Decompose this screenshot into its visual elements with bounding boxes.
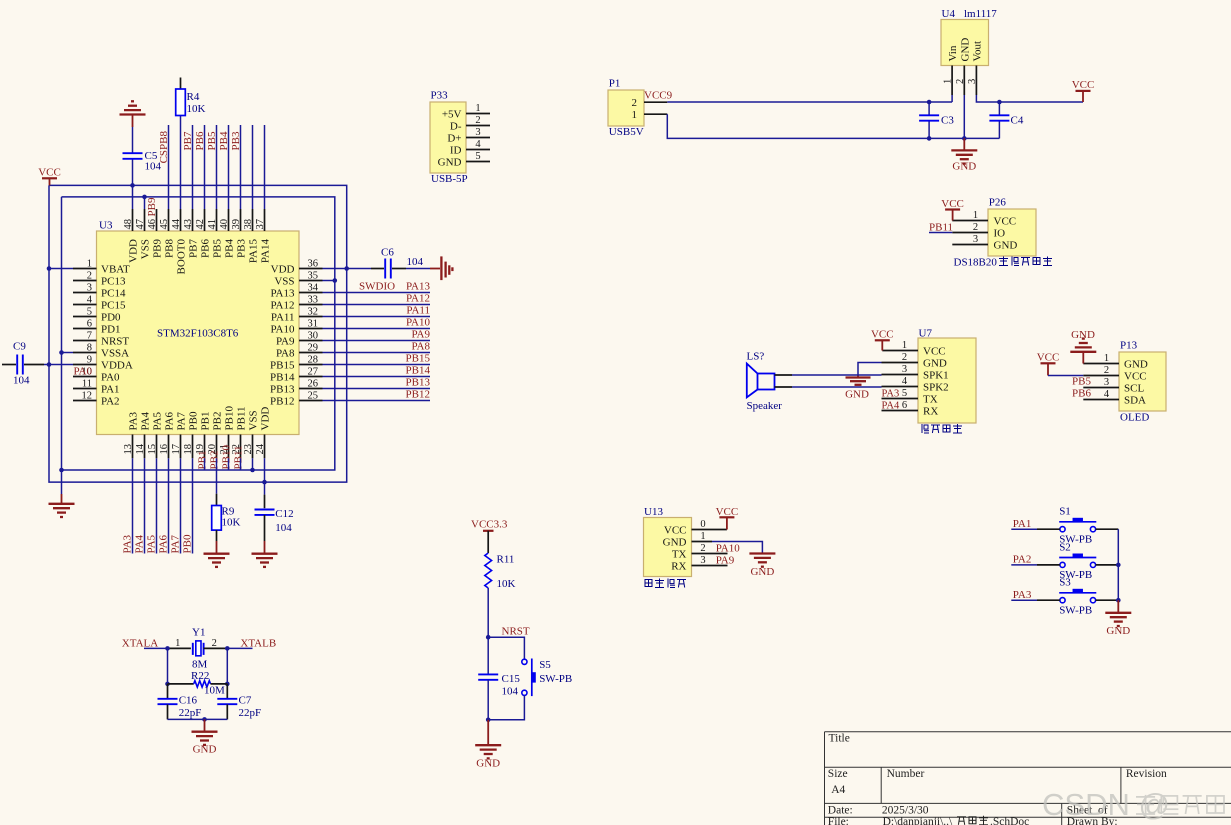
svg-text:GND: GND bbox=[438, 156, 462, 168]
svg-text:GND: GND bbox=[923, 357, 947, 369]
wire NRST to S5 bbox=[488, 637, 524, 659]
wire S1 to gnd bus bbox=[1096, 528, 1119, 530]
svg-text:VDD: VDD bbox=[271, 263, 295, 275]
svg-text:S1: S1 bbox=[1059, 506, 1071, 518]
svg-text:GND: GND bbox=[750, 566, 774, 578]
svg-text:CSPB8: CSPB8 bbox=[158, 131, 170, 164]
voice module U7 bbox=[902, 328, 976, 424]
svg-text:GND: GND bbox=[959, 38, 971, 62]
wire S3 to gnd bus bbox=[1096, 599, 1119, 601]
svg-text:TX: TX bbox=[672, 548, 687, 560]
svg-text:GND: GND bbox=[845, 388, 869, 400]
svg-text:1: 1 bbox=[700, 531, 705, 542]
svg-text:25: 25 bbox=[308, 390, 319, 401]
wire PB11 to P26 pin2 bbox=[929, 232, 952, 234]
svg-text:8M: 8M bbox=[192, 659, 208, 671]
svg-text:9: 9 bbox=[87, 354, 92, 365]
svg-text:C15: C15 bbox=[502, 673, 521, 685]
svg-text:GND: GND bbox=[476, 758, 500, 770]
svg-text:1: 1 bbox=[973, 210, 978, 221]
svg-text:TX: TX bbox=[923, 393, 938, 405]
svg-text:11: 11 bbox=[82, 378, 92, 389]
watermark CSDN bbox=[1042, 787, 1224, 822]
label voice module chinese bbox=[922, 424, 929, 433]
svg-text:.SchDoc: .SchDoc bbox=[990, 816, 1029, 825]
resistor R4 10K bbox=[176, 89, 206, 116]
speaker LS? bbox=[747, 351, 783, 413]
svg-text:2: 2 bbox=[700, 543, 705, 554]
svg-text:8: 8 bbox=[87, 342, 92, 353]
title block bbox=[825, 732, 1231, 825]
svg-text:STM32F103C8T6: STM32F103C8T6 bbox=[157, 328, 239, 340]
connector P26 DS18B20 bbox=[952, 197, 1036, 257]
svg-text:1: 1 bbox=[632, 109, 638, 121]
wire PA1 to S1 bbox=[1011, 528, 1060, 530]
svg-text:42: 42 bbox=[195, 219, 206, 230]
svg-text:4: 4 bbox=[475, 139, 481, 150]
svg-text:7: 7 bbox=[87, 330, 92, 341]
wire speaker to U7 SPK2 bbox=[775, 386, 919, 389]
svg-text:VCC: VCC bbox=[38, 167, 61, 179]
net labels PA13-PB12 bbox=[406, 280, 431, 400]
svg-text:PB10: PB10 bbox=[224, 406, 236, 431]
svg-text:VDDA: VDDA bbox=[101, 359, 133, 371]
svg-text:PA11: PA11 bbox=[406, 304, 430, 316]
svg-text:PA6: PA6 bbox=[158, 534, 170, 553]
connector P33 USB-5P bbox=[430, 90, 468, 186]
svg-text:22pF: 22pF bbox=[239, 707, 262, 719]
svg-text:PA10: PA10 bbox=[406, 316, 431, 328]
svg-text:PA9: PA9 bbox=[411, 328, 430, 340]
svg-text:PB9: PB9 bbox=[146, 197, 158, 216]
wire U4 Vin down bbox=[951, 95, 953, 102]
svg-text:1: 1 bbox=[87, 258, 92, 269]
wire pin48 VDD to VCC ring and C5 bbox=[132, 115, 134, 210]
svg-text:VCC: VCC bbox=[941, 198, 964, 210]
svg-text:VSS: VSS bbox=[248, 410, 260, 430]
junction dots switch bus bbox=[1116, 563, 1121, 603]
svg-text:4: 4 bbox=[87, 294, 93, 305]
svg-text:VCC: VCC bbox=[1037, 352, 1060, 364]
svg-text:4: 4 bbox=[1104, 389, 1110, 400]
junction dot C15 bottom bbox=[486, 718, 491, 723]
svg-text:10K: 10K bbox=[497, 578, 516, 590]
svg-text:VCC: VCC bbox=[871, 329, 894, 341]
wire pin8 VSSA to GND ring bbox=[62, 352, 74, 354]
svg-text:PB6: PB6 bbox=[200, 239, 212, 258]
svg-text:VCC9: VCC9 bbox=[644, 90, 673, 102]
svg-text:32: 32 bbox=[308, 306, 319, 317]
net labels PB7 PB6 PB5 PB4 PB3 on top wires bbox=[182, 131, 242, 150]
U4 pin stubs 1 2 3 bbox=[943, 66, 978, 96]
svg-text:40: 40 bbox=[219, 219, 230, 230]
svg-text:36: 36 bbox=[308, 258, 319, 269]
svg-text:PB2: PB2 bbox=[209, 451, 221, 470]
ground symbol below R9 bbox=[204, 553, 230, 555]
svg-text:S5: S5 bbox=[539, 659, 551, 671]
svg-text:37: 37 bbox=[255, 219, 266, 230]
ground symbol below C15 bbox=[475, 720, 501, 770]
svg-text:PA10: PA10 bbox=[270, 323, 295, 335]
switch S5 SW-PB bbox=[522, 659, 572, 697]
svg-text:PA2: PA2 bbox=[101, 395, 120, 407]
svg-text:PA5: PA5 bbox=[152, 411, 164, 430]
svg-text:PA1: PA1 bbox=[101, 383, 120, 395]
svg-text:GND: GND bbox=[1124, 358, 1148, 370]
wire PA2 to S2 bbox=[1011, 564, 1060, 566]
svg-text:PB0: PB0 bbox=[182, 534, 194, 553]
svg-text:PA4: PA4 bbox=[134, 534, 146, 553]
svg-text:PA13: PA13 bbox=[406, 280, 431, 292]
ground symbol below switches bbox=[1105, 600, 1131, 637]
svg-text:28: 28 bbox=[308, 354, 319, 365]
svg-text:PA1: PA1 bbox=[1013, 518, 1032, 530]
svg-text:GND: GND bbox=[994, 239, 1018, 251]
wire pin47 VSS to GND ring bbox=[144, 197, 146, 209]
svg-text:P1: P1 bbox=[609, 78, 621, 90]
svg-text:ID: ID bbox=[450, 144, 462, 156]
wire U7 GND pin2 bbox=[858, 363, 882, 376]
svg-text:P13: P13 bbox=[1120, 340, 1138, 352]
svg-text:PD0: PD0 bbox=[101, 311, 121, 323]
svg-text:2: 2 bbox=[973, 222, 978, 233]
svg-text:GND: GND bbox=[663, 536, 687, 548]
svg-text:34: 34 bbox=[308, 282, 319, 293]
P33 pins 1-5 bbox=[438, 103, 490, 168]
svg-text:PB4: PB4 bbox=[218, 131, 230, 150]
P1 pin stubs bbox=[644, 102, 667, 114]
svg-text:31: 31 bbox=[308, 318, 319, 329]
ground symbol below C12 bbox=[252, 553, 278, 555]
svg-text:PA0: PA0 bbox=[73, 365, 92, 377]
power symbol VCC at P26 bbox=[941, 198, 964, 221]
svg-text:D+: D+ bbox=[447, 132, 461, 144]
svg-text:GND: GND bbox=[1106, 625, 1130, 637]
svg-text:PA3: PA3 bbox=[122, 534, 134, 553]
wire ground rail under U4 bbox=[929, 137, 999, 139]
junction dots crystal bbox=[165, 646, 229, 722]
svg-text:U4: U4 bbox=[942, 8, 956, 20]
capacitor C16 22pF bbox=[158, 684, 202, 720]
svg-text:VDD: VDD bbox=[128, 239, 140, 263]
svg-text:Vout: Vout bbox=[971, 41, 983, 62]
svg-text:23: 23 bbox=[243, 444, 254, 455]
svg-text:38: 38 bbox=[243, 219, 254, 230]
file path text bbox=[883, 816, 1030, 825]
svg-text:1: 1 bbox=[1104, 353, 1109, 364]
svg-text:PA9: PA9 bbox=[276, 335, 295, 347]
svg-text:PB5: PB5 bbox=[206, 131, 218, 150]
svg-text:A4: A4 bbox=[831, 784, 845, 796]
svg-text:VCC: VCC bbox=[923, 345, 946, 357]
title block text bbox=[828, 733, 1167, 825]
junction dots ground rail bbox=[927, 136, 967, 141]
svg-text:VSSA: VSSA bbox=[101, 347, 129, 359]
power symbol VCC at U7 bbox=[871, 329, 894, 351]
svg-text:PB12: PB12 bbox=[270, 395, 294, 407]
switch S1 SW-PB bbox=[1059, 506, 1096, 546]
svg-text:USB5V: USB5V bbox=[609, 126, 644, 138]
svg-text:PB15: PB15 bbox=[406, 352, 431, 364]
wires above top pins bbox=[169, 125, 265, 209]
svg-text:6: 6 bbox=[87, 318, 92, 329]
wire pin1 VBAT to VCC ring bbox=[49, 268, 73, 270]
wire PA3 to S3 bbox=[1011, 599, 1060, 601]
svg-text:PB7: PB7 bbox=[188, 239, 200, 258]
svg-text:43: 43 bbox=[183, 219, 194, 230]
svg-text:3: 3 bbox=[700, 555, 705, 566]
svg-text:44: 44 bbox=[171, 218, 182, 229]
svg-text:Vin: Vin bbox=[947, 45, 959, 61]
svg-text:XTALA: XTALA bbox=[122, 637, 158, 649]
svg-text:lm1117: lm1117 bbox=[964, 8, 997, 20]
svg-text:NRST: NRST bbox=[101, 335, 129, 347]
wire C12 to ground bbox=[264, 515, 266, 554]
switch S3 SW-PB bbox=[1059, 577, 1096, 617]
svg-text:BOOT0: BOOT0 bbox=[176, 239, 188, 275]
U7 pin stubs bbox=[882, 351, 919, 411]
capacitor C3 104 bbox=[919, 102, 954, 138]
svg-text:+5V: +5V bbox=[442, 108, 462, 120]
wire speaker to U7 SPK1 bbox=[775, 374, 919, 377]
svg-text:SW-PB: SW-PB bbox=[1059, 605, 1092, 617]
svg-text:D-: D- bbox=[450, 120, 462, 132]
svg-text:2: 2 bbox=[1104, 365, 1109, 376]
svg-text:IO: IO bbox=[994, 227, 1006, 239]
capacitor C5 104 bbox=[123, 150, 162, 173]
wire VCC to P13 pin2 bbox=[1048, 375, 1083, 377]
svg-text:27: 27 bbox=[308, 366, 319, 377]
resistor R11 10K bbox=[485, 553, 516, 590]
svg-text:VSS: VSS bbox=[140, 239, 152, 259]
capacitor C6 104 bbox=[381, 247, 424, 279]
wire S2 to gnd bus bbox=[1096, 564, 1119, 566]
wire pin36 VDD to C6 bbox=[323, 268, 441, 270]
svg-text:6: 6 bbox=[902, 400, 907, 411]
wire XTALA to crystal bbox=[144, 647, 191, 649]
wire BOOT0 pin44 bbox=[180, 78, 182, 210]
wire U4 Vout to VCC bbox=[976, 95, 1083, 102]
svg-text:D:\danpianji\..\: D:\danpianji\..\ bbox=[883, 816, 953, 825]
wire S5 to ground node bbox=[488, 695, 524, 719]
svg-text:U13: U13 bbox=[644, 506, 663, 518]
capacitor C9 104 bbox=[13, 341, 30, 387]
ground symbol below crystal bbox=[192, 719, 218, 755]
svg-text:3: 3 bbox=[967, 79, 978, 84]
capacitor C4 104 bbox=[989, 102, 1023, 138]
svg-text:48: 48 bbox=[123, 219, 134, 230]
svg-text:PB15: PB15 bbox=[270, 359, 295, 371]
svg-text:PA12: PA12 bbox=[406, 292, 430, 304]
svg-text:17: 17 bbox=[171, 444, 182, 455]
svg-text:GND: GND bbox=[193, 744, 217, 756]
svg-text:U7: U7 bbox=[919, 328, 933, 340]
wire switch gnd bus bbox=[1117, 529, 1119, 600]
svg-text:PB6: PB6 bbox=[194, 131, 206, 150]
wire pins 19-24 stubs to rails bbox=[205, 458, 265, 482]
connector P13 OLED bbox=[1083, 340, 1166, 424]
svg-text:PB7: PB7 bbox=[182, 131, 194, 150]
wire PB2 pin20 to R9 bbox=[216, 458, 218, 505]
wire crystal to XTALB bbox=[204, 647, 253, 649]
svg-text:5: 5 bbox=[475, 151, 480, 162]
svg-text:PB1: PB1 bbox=[200, 412, 212, 431]
wire P1 pin1 to ground rail bbox=[667, 114, 929, 138]
svg-text:VCC3.3: VCC3.3 bbox=[471, 519, 508, 531]
wires PA3-PB0 from pins 13-18 bbox=[133, 458, 193, 553]
svg-text:5: 5 bbox=[87, 306, 92, 317]
U3 left pins 1-12 bbox=[73, 258, 133, 407]
svg-text:SW-PB: SW-PB bbox=[539, 673, 572, 685]
net labels PA3 PA4 PA5 PA6 PA7 PB0 bbox=[122, 534, 194, 553]
svg-text:18: 18 bbox=[183, 444, 194, 455]
regulator U4 lm1117 bbox=[941, 8, 997, 66]
junction dots VCC9/VCC nets bbox=[927, 100, 1002, 105]
svg-text:File:: File: bbox=[828, 816, 849, 825]
U3 bottom pins 13-24 bbox=[123, 406, 272, 459]
wire R9 to ground bbox=[216, 530, 218, 554]
svg-text:OLED: OLED bbox=[1120, 412, 1149, 424]
svg-text:2: 2 bbox=[955, 79, 966, 84]
svg-text:24: 24 bbox=[255, 443, 266, 454]
U13 pin stubs bbox=[692, 530, 728, 566]
wire VDDA pin9 bbox=[2, 364, 73, 366]
svg-text:PB14: PB14 bbox=[270, 371, 295, 383]
svg-text:13: 13 bbox=[123, 444, 134, 455]
svg-text:RX: RX bbox=[671, 560, 686, 572]
svg-text:U3: U3 bbox=[99, 220, 113, 232]
connector P1 USB5V bbox=[608, 78, 644, 139]
svg-text:5: 5 bbox=[902, 388, 907, 399]
svg-text:PB0: PB0 bbox=[188, 411, 200, 430]
svg-text:PB13: PB13 bbox=[406, 376, 431, 388]
svg-text:PA7: PA7 bbox=[170, 534, 182, 553]
wire pin35 VSS to GND ring bbox=[323, 280, 335, 282]
svg-text:2: 2 bbox=[902, 352, 907, 363]
svg-text:PB9: PB9 bbox=[152, 239, 164, 258]
svg-text:104: 104 bbox=[275, 522, 292, 534]
svg-text:C7: C7 bbox=[239, 695, 252, 707]
svg-text:1: 1 bbox=[943, 79, 954, 84]
svg-text:35: 35 bbox=[308, 270, 319, 281]
wire VDD rail to C12 bbox=[264, 482, 266, 508]
U3 top pins 37-48 bbox=[123, 209, 272, 274]
svg-text:PB11: PB11 bbox=[233, 445, 245, 469]
svg-text:PA15: PA15 bbox=[248, 239, 260, 264]
svg-text:10M: 10M bbox=[204, 684, 225, 696]
svg-text:3: 3 bbox=[902, 364, 907, 375]
svg-text:PA12: PA12 bbox=[270, 299, 294, 311]
svg-text:3: 3 bbox=[87, 282, 92, 293]
wire crystal right branch bbox=[226, 648, 228, 684]
svg-text:Date:: Date: bbox=[828, 805, 853, 817]
svg-text:104: 104 bbox=[13, 375, 30, 387]
svg-text:0: 0 bbox=[700, 519, 705, 530]
crystal Y1 8M bbox=[175, 627, 217, 671]
svg-text:RX: RX bbox=[923, 405, 938, 417]
svg-text:PB12: PB12 bbox=[406, 388, 430, 400]
svg-text:104: 104 bbox=[407, 256, 424, 268]
svg-text:16: 16 bbox=[159, 444, 170, 455]
svg-text:PB10: PB10 bbox=[221, 445, 233, 470]
power symbol VCC3.3 bbox=[471, 519, 508, 531]
svg-text:2: 2 bbox=[87, 270, 92, 281]
wire crystal left branch bbox=[167, 648, 169, 684]
power symbol VCC at P13 bbox=[1037, 352, 1060, 376]
svg-text:VDD: VDD bbox=[260, 407, 272, 431]
svg-text:PA4: PA4 bbox=[140, 411, 152, 430]
svg-text:Speaker: Speaker bbox=[747, 400, 783, 412]
svg-text:PA13: PA13 bbox=[270, 287, 295, 299]
svg-text:R11: R11 bbox=[497, 554, 515, 566]
svg-text:39: 39 bbox=[231, 219, 242, 230]
svg-text:PB4: PB4 bbox=[224, 239, 236, 258]
svg-text:PB3: PB3 bbox=[230, 131, 242, 150]
svg-text:PC13: PC13 bbox=[101, 275, 126, 287]
svg-text:LS?: LS? bbox=[747, 351, 765, 363]
svg-text:2025/3/30: 2025/3/30 bbox=[882, 805, 929, 817]
svg-text:GND: GND bbox=[952, 161, 976, 173]
wires pins 25-34 bbox=[323, 293, 431, 401]
svg-text:XTALB: XTALB bbox=[240, 637, 276, 649]
resistor R22 10M bbox=[168, 670, 228, 697]
svg-text:PA10: PA10 bbox=[716, 542, 741, 554]
svg-text:Revision: Revision bbox=[1126, 768, 1167, 780]
svg-text:PD1: PD1 bbox=[101, 323, 121, 335]
svg-text:SPK1: SPK1 bbox=[923, 369, 949, 381]
svg-text:PB14: PB14 bbox=[406, 364, 431, 376]
svg-text:12: 12 bbox=[82, 390, 93, 401]
svg-text:3: 3 bbox=[1104, 377, 1109, 388]
svg-text:PB13: PB13 bbox=[270, 383, 295, 395]
svg-text:46: 46 bbox=[147, 219, 158, 230]
svg-text:26: 26 bbox=[308, 378, 319, 389]
svg-text:2: 2 bbox=[212, 638, 217, 649]
ground symbol above P13 bbox=[1070, 329, 1096, 364]
wire R11 to NRST node bbox=[487, 588, 489, 637]
wire VCC ring around U3 bbox=[49, 185, 347, 482]
junction dots on VCC ring bbox=[47, 183, 349, 484]
power symbol VCC at U13 bbox=[716, 506, 739, 530]
wire GND ring around U3 bbox=[62, 197, 335, 470]
svg-text:10K: 10K bbox=[222, 517, 241, 529]
svg-text:PB2: PB2 bbox=[212, 412, 224, 431]
svg-text:45: 45 bbox=[159, 219, 170, 230]
svg-text:P33: P33 bbox=[431, 90, 449, 102]
switch S2 SW-PB bbox=[1059, 541, 1096, 581]
svg-text:PA3: PA3 bbox=[882, 389, 900, 400]
svg-text:C12: C12 bbox=[275, 508, 293, 520]
svg-text:1: 1 bbox=[902, 340, 907, 351]
svg-text:PB8: PB8 bbox=[164, 239, 176, 258]
junction dots on GND ring bbox=[59, 195, 337, 473]
svg-text:Title: Title bbox=[829, 733, 850, 745]
svg-text:SWDIO: SWDIO bbox=[359, 280, 395, 292]
earth ground right of C6 bbox=[441, 256, 452, 280]
capacitor C7 22pF bbox=[217, 684, 261, 720]
net labels PB1 PB2 PB10 PB11 on pins 19-22 bbox=[197, 445, 245, 470]
svg-text:PC14: PC14 bbox=[101, 287, 126, 299]
U3 right pins 25-36 bbox=[270, 258, 322, 407]
wire U4 GND down to rail bbox=[963, 95, 965, 138]
svg-text:Y1: Y1 bbox=[192, 627, 205, 639]
svg-text:SCL: SCL bbox=[1124, 382, 1144, 394]
svg-text:VCC: VCC bbox=[994, 215, 1017, 227]
svg-text:VCC: VCC bbox=[1072, 79, 1095, 91]
svg-text:USB-5P: USB-5P bbox=[431, 173, 468, 185]
label DS18B20 temperature sensor bbox=[954, 257, 1053, 269]
svg-text:41: 41 bbox=[207, 219, 218, 230]
